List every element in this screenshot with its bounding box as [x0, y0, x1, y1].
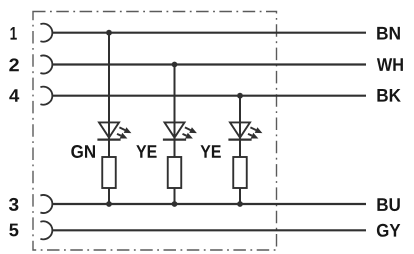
wire LED branch 1 vertical: [108, 33, 110, 204]
junction branch 3 top: [237, 93, 243, 99]
LED color label GN: [71, 145, 95, 158]
connector pin 1 socket contact: [40, 24, 52, 42]
pin number 3: [9, 198, 19, 211]
wire label BK: [377, 89, 400, 102]
pin number 5: [9, 224, 18, 237]
junction branch 1 top: [106, 30, 112, 36]
pin number 4: [9, 89, 19, 102]
junction branch 3 bottom: [237, 201, 243, 207]
LED D3 YE: [228, 122, 262, 139]
resistor R1: [102, 157, 116, 188]
wire LED branch 2 vertical: [174, 65, 176, 205]
resistor R2: [168, 157, 182, 188]
wire pin 4 to BK: [52, 95, 366, 97]
wire label GY: [377, 224, 400, 237]
pin number 2: [9, 58, 18, 71]
junction branch 1 bottom: [106, 201, 112, 207]
LED D2 YE: [163, 122, 197, 139]
junction branch 2 bottom: [172, 201, 178, 207]
enclosure boundary (dash-dot frame): [33, 12, 277, 251]
connector pin 2 socket contact: [40, 56, 52, 74]
pin number 1: [11, 27, 17, 40]
wire pin 2 to WH: [52, 63, 366, 65]
connector pin 5 socket contact: [40, 221, 52, 239]
connector pin 3 socket contact: [40, 195, 52, 213]
LED color label YE (D2): [136, 145, 156, 158]
wire label BN: [377, 27, 400, 40]
wire label WH: [377, 58, 403, 71]
LED color label YE (D3): [201, 145, 221, 158]
wire pin 1 to BN: [52, 32, 366, 34]
wire pin 5 to GY: [52, 229, 366, 231]
wire label BU: [377, 198, 399, 211]
resistor R3: [233, 157, 247, 188]
LED D1 GN: [97, 122, 131, 139]
wire LED branch 3 vertical: [239, 96, 241, 204]
wire pin 3 to BU: [52, 203, 366, 205]
connector pin 4 socket contact: [40, 87, 52, 105]
junction branch 2 top: [172, 62, 178, 68]
